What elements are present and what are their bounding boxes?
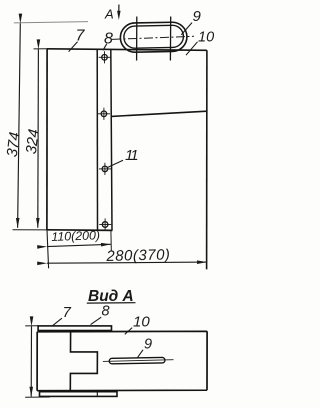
title underline <box>87 302 136 304</box>
plate 7 top edge <box>47 49 207 51</box>
leader 11 <box>107 160 123 167</box>
dimension 280(370) line <box>47 262 207 263</box>
box 10 right edge + extension <box>206 50 208 269</box>
svg-text:9: 9 <box>144 337 152 353</box>
extension bottom (view A) <box>25 396 50 398</box>
dimension 324 line <box>37 49 40 228</box>
dimension 374 line <box>18 23 21 227</box>
strip 8 left edge <box>96 49 98 230</box>
svg-text:11: 11 <box>125 147 138 164</box>
svg-text:7: 7 <box>63 304 72 321</box>
leader 7 <box>69 42 78 52</box>
plate 7 left edge <box>46 49 48 230</box>
channel profile (plate 7 from top) <box>70 332 97 391</box>
svg-text:A: A <box>104 7 114 22</box>
slot centerline <box>103 360 174 362</box>
body 10 outline (view A) <box>37 331 207 390</box>
bottom extension line left <box>13 229 49 231</box>
dimension line (view A, no text) <box>30 326 32 396</box>
hole 4 <box>99 218 111 230</box>
tube 9 inner stadium <box>124 25 184 48</box>
plate 7 bottom edge <box>47 229 113 232</box>
svg-text:8: 8 <box>104 31 113 48</box>
hole 2 <box>98 108 110 120</box>
slot 9 (view A) <box>109 357 165 363</box>
extension line top (374, faint) <box>14 22 88 23</box>
box 10 bottom edge <box>111 111 206 116</box>
svg-text:10: 10 <box>133 313 150 330</box>
tube tangent vertical left <box>136 17 138 61</box>
svg-text:9: 9 <box>193 8 202 25</box>
svg-text:280(370): 280(370) <box>105 246 170 265</box>
svg-text:10: 10 <box>198 29 214 45</box>
leader 10 (view A) <box>125 328 132 335</box>
leader 9 (view A) <box>138 350 144 358</box>
leader 9 <box>181 23 192 35</box>
svg-text:374: 374 <box>4 131 24 158</box>
svg-text:324: 324 <box>23 128 43 155</box>
leader 10 <box>186 42 198 55</box>
strip 8 right edge <box>111 49 112 230</box>
tube 9 outer stadium <box>120 22 187 52</box>
flange bar bottom <box>40 392 118 397</box>
leader 8 (view A) <box>91 317 102 324</box>
bottom bar tick <box>96 392 98 397</box>
flange bar top (7/8 edge view) <box>38 326 111 331</box>
dimension 110(200) line <box>47 244 111 246</box>
hole 3 <box>99 163 111 175</box>
svg-text:110(200): 110(200) <box>51 228 100 244</box>
leader 7 (view A) <box>52 318 62 326</box>
leader 8 <box>103 44 107 51</box>
tube tangent vertical right <box>169 17 171 61</box>
left edge lower extension <box>47 230 49 268</box>
extension top (view A) <box>25 325 38 327</box>
strip right lower extension <box>110 230 112 250</box>
extension line 324 top <box>34 48 49 50</box>
svg-text:8: 8 <box>102 304 110 320</box>
tube centerline dash-dot <box>112 36 194 39</box>
view direction arrow <box>118 5 120 13</box>
hole 1 <box>99 51 111 63</box>
